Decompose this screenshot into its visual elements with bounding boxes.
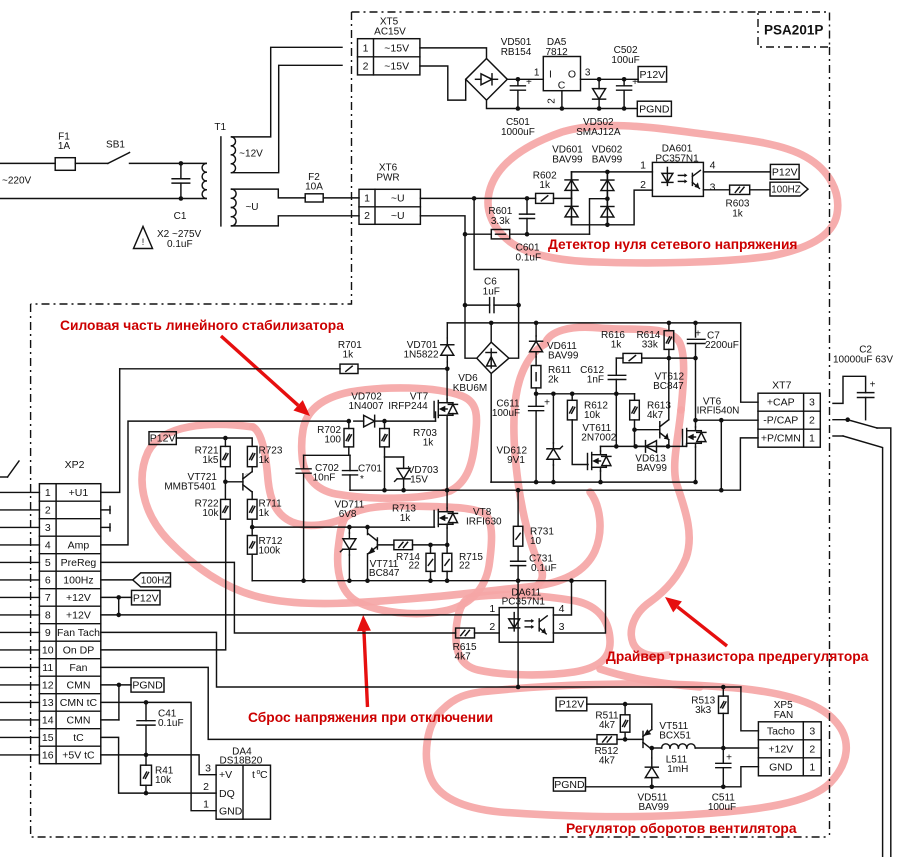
transistor VT611 2N7002 xyxy=(587,454,589,470)
wire PGND fan line xyxy=(586,786,741,788)
voltage regulator DA5 7812 xyxy=(543,57,580,91)
svg-text:+CAP: +CAP xyxy=(767,397,795,409)
wire XT5 pin1 to bridge xyxy=(420,48,487,59)
svg-text:2: 2 xyxy=(363,60,369,72)
svg-text:1k: 1k xyxy=(539,180,551,191)
wire R714 line to VT8 source xyxy=(413,544,448,546)
svg-text:4: 4 xyxy=(559,603,565,615)
svg-text:+: + xyxy=(632,77,638,88)
svg-text:I: I xyxy=(549,69,552,81)
svg-text:Детектор нуля сетевого напряже: Детектор нуля сетевого напряжения xyxy=(548,237,797,252)
net label P12V fan xyxy=(556,697,587,710)
wire XP2 pin16 +5VtC to DA4 +V xyxy=(101,755,216,775)
wire R721 to VT721 base xyxy=(224,467,226,482)
diode VD701 1N5822 xyxy=(446,338,448,345)
svg-text:DQ: DQ xyxy=(219,788,235,800)
wire 611 mid bus xyxy=(536,393,634,395)
wire VT7 drain xyxy=(446,369,448,399)
svg-text:BCX51: BCX51 xyxy=(659,731,691,742)
resistor R702 100 xyxy=(348,421,350,428)
svg-text:4k7: 4k7 xyxy=(455,652,472,663)
svg-text:22: 22 xyxy=(459,561,471,572)
svg-text:1: 1 xyxy=(809,433,815,445)
wire row1 branch down to C6 right xyxy=(474,198,518,305)
svg-text:+12V: +12V xyxy=(66,592,91,604)
svg-text:PC357N1: PC357N1 xyxy=(502,597,546,608)
resistor R712 100k xyxy=(251,527,253,535)
dual diode VD611 BAV99 xyxy=(535,323,537,336)
wire R711 to gate line xyxy=(251,519,253,527)
svg-text:MMBT5401: MMBT5401 xyxy=(164,482,216,493)
transformer T1 secondary U winding xyxy=(232,189,237,198)
wire VT6 gate approach xyxy=(686,444,688,446)
wire DA601 pin3 to R603 xyxy=(703,189,729,191)
svg-text:0.1uF: 0.1uF xyxy=(167,239,193,250)
svg-text:PC357N1: PC357N1 xyxy=(655,154,699,165)
switch SB1 xyxy=(108,153,130,164)
net label P12V detector xyxy=(770,164,799,179)
svg-text:~12V: ~12V xyxy=(239,149,263,160)
wire F2 to XT6 pin1 xyxy=(323,197,359,199)
wire preregulator gate line xyxy=(252,526,434,528)
wire R613 to VT612 base xyxy=(634,420,636,447)
svg-text:3: 3 xyxy=(809,725,815,737)
svg-text:AC15V: AC15V xyxy=(374,27,406,38)
resistor R714 22 vertical xyxy=(430,545,432,553)
highlight loop around VD711 discharge lobe xyxy=(338,506,492,614)
svg-text:1nF: 1nF xyxy=(587,375,604,386)
svg-text:3: 3 xyxy=(585,68,591,79)
red arrow to preregulator driver xyxy=(678,607,727,646)
svg-text:C: C xyxy=(558,80,566,92)
wire XP2 pin9 FanTach to XP5 Tacho xyxy=(101,632,741,687)
capacitor C502 100uF xyxy=(623,79,625,86)
wire 611 drive line xyxy=(601,445,687,447)
resistor R723 1k xyxy=(247,446,257,466)
net label P12V stabilizer xyxy=(149,432,176,445)
svg-text:C: C xyxy=(260,769,268,781)
wire local bottom bus xyxy=(252,580,605,582)
svg-text:tC: tC xyxy=(73,732,84,744)
svg-text:PGND: PGND xyxy=(132,680,163,692)
svg-text:~220V: ~220V xyxy=(2,176,32,187)
svg-text:+V: +V xyxy=(219,769,232,781)
svg-text:P12V: P12V xyxy=(133,592,159,604)
wire XP2 pin15 tC to DA4 DQ xyxy=(101,737,216,793)
svg-text:P12V: P12V xyxy=(559,699,585,711)
transistor VT511 BCX51 xyxy=(642,731,644,747)
svg-text:1k: 1k xyxy=(611,340,623,351)
svg-text:100: 100 xyxy=(324,435,341,446)
wire mains line bottom xyxy=(0,198,206,200)
bridge rectifier VD501 RB154 xyxy=(466,59,508,101)
svg-text:+: + xyxy=(544,397,550,408)
svg-text:33k: 33k xyxy=(642,340,659,351)
svg-text:~15V: ~15V xyxy=(384,42,409,54)
wire VT511 collector node xyxy=(651,749,653,758)
diode VD613 BAV99 xyxy=(638,445,646,447)
switch contact at C2 xyxy=(845,417,850,422)
transistor VT612 BC847 xyxy=(659,422,661,438)
resistor R711 1k xyxy=(247,499,257,519)
wire VT6 drain with C7 xyxy=(695,323,697,337)
svg-text:GND: GND xyxy=(219,806,243,818)
wire XP2 pin11 Fan to R512 xyxy=(101,667,597,739)
svg-text:-P/CAP: -P/CAP xyxy=(763,415,798,427)
svg-text:4: 4 xyxy=(710,160,716,172)
svg-text:1: 1 xyxy=(489,603,495,615)
wire bridge VD6 bottom down xyxy=(490,374,492,483)
svg-text:XP2: XP2 xyxy=(65,459,85,471)
svg-text:16: 16 xyxy=(42,749,54,761)
svg-text:t: t xyxy=(252,769,255,781)
wire R601 line xyxy=(465,233,491,235)
svg-text:*: * xyxy=(360,474,364,485)
svg-text:1: 1 xyxy=(45,487,51,499)
svg-text:10: 10 xyxy=(530,536,542,547)
resistor R616 1k xyxy=(623,353,642,362)
svg-text:Сброс напряжения при отключени: Сброс напряжения при отключении xyxy=(248,710,493,725)
wire preregulator output bus xyxy=(350,438,758,490)
wire VT8 source to R715 xyxy=(446,528,448,553)
capacitor C612 1nF and R616 branch xyxy=(615,358,617,375)
resistor R731 10 xyxy=(517,490,519,526)
svg-text:1k: 1k xyxy=(400,513,412,524)
capacitor C501 1000uF xyxy=(517,79,519,86)
svg-text:0.1uF: 0.1uF xyxy=(158,718,184,729)
svg-text:1mH: 1mH xyxy=(667,764,688,775)
wire XP2 pin1 +U1 riser to R701 line xyxy=(101,369,120,493)
wire mains line top xyxy=(0,162,55,164)
net label P12V top xyxy=(638,67,667,83)
resistor R714 22 horizontal xyxy=(394,540,413,550)
svg-text:+: + xyxy=(726,753,732,764)
svg-text:+: + xyxy=(526,77,532,88)
dual diode VD601 BAV99 xyxy=(571,172,573,225)
highlight stroke joining DA611 loop to fan loop xyxy=(600,669,700,687)
svg-text:100uF: 100uF xyxy=(492,408,520,419)
svg-text:2: 2 xyxy=(45,504,51,516)
resistor R512 4k7 xyxy=(597,735,617,744)
svg-text:4k7: 4k7 xyxy=(599,756,616,767)
wire R602 to VD601 xyxy=(554,197,572,199)
svg-text:+5V tC: +5V tC xyxy=(62,749,95,761)
svg-text:14: 14 xyxy=(42,714,54,726)
svg-text:+U1: +U1 xyxy=(69,487,89,499)
wire lower external stub xyxy=(833,435,843,437)
svg-text:100Hz: 100Hz xyxy=(63,574,93,586)
wire XP2 pin7 +12V to P12V xyxy=(101,596,132,598)
resistor R715 22 xyxy=(442,553,451,571)
svg-text:1k: 1k xyxy=(259,455,271,466)
resistor R611 2k xyxy=(535,357,537,366)
svg-text:9: 9 xyxy=(45,627,51,639)
wire XP2 pin8 +12V long line to DA611 pin1 xyxy=(101,614,499,616)
wire fan GND to XP5 xyxy=(741,767,759,787)
wire bridge VD6 top to rail xyxy=(490,323,492,342)
svg-text:10k: 10k xyxy=(155,775,172,786)
wire XP2 pin5 PreReg to R615 xyxy=(101,562,456,633)
svg-text:10000uF 63V: 10000uF 63V xyxy=(833,355,893,366)
net label PGND top xyxy=(637,101,671,116)
wire R703 bottom to bus xyxy=(384,447,386,490)
svg-text:+12V: +12V xyxy=(768,743,793,755)
highlight loop around VT7 preregulator lobe xyxy=(302,388,477,498)
svg-text:BC847: BC847 xyxy=(369,568,400,579)
svg-text:13: 13 xyxy=(42,697,54,709)
svg-text:4k7: 4k7 xyxy=(647,410,664,421)
net label PGND fan xyxy=(553,778,585,791)
wire rail to XT7 +CAP xyxy=(741,323,758,402)
wire XP2 pin3 stub xyxy=(101,526,110,528)
svg-text:PWR: PWR xyxy=(376,173,399,184)
wire bridge to DA5 input xyxy=(507,78,543,80)
resistor R603 1k xyxy=(730,185,750,194)
svg-text:+: + xyxy=(870,380,876,391)
highlight loop around 611 preregulator control block left side xyxy=(545,327,684,410)
optocoupler DA601 PC357N1 xyxy=(652,162,703,196)
resistor R614 33k xyxy=(668,323,670,331)
wire -P/CAP branch to output bus xyxy=(720,420,722,490)
wire VT611 drain to drive line xyxy=(600,446,602,451)
wire XP2 pin4 Amp riser to gate line xyxy=(101,421,349,545)
wire R701 line xyxy=(120,368,340,370)
wire DA601 pin4 to P12V xyxy=(703,171,770,173)
module border dashed outline xyxy=(352,11,759,13)
fuse F1 1A xyxy=(55,158,75,171)
svg-text:P12V: P12V xyxy=(772,166,798,178)
svg-text:BAV99: BAV99 xyxy=(637,463,668,474)
bridge rectifier VD6 KBU6M xyxy=(477,342,509,373)
svg-text:1: 1 xyxy=(203,799,209,811)
wire VT612 collector to R614 node xyxy=(668,358,670,420)
wire gate line to VT7 xyxy=(385,420,436,422)
wire C6 right down to bridge VD6 right corner xyxy=(509,305,519,358)
svg-text:7: 7 xyxy=(45,592,51,604)
wire XP2 pin2 stub xyxy=(101,509,110,511)
zener diode VD703 15V xyxy=(385,456,404,458)
svg-text:BAV99: BAV99 xyxy=(592,155,623,166)
svg-text:0.1uF: 0.1uF xyxy=(516,253,542,264)
wire XT6 pin2 down xyxy=(420,216,465,234)
svg-text:1N4007: 1N4007 xyxy=(348,401,383,412)
wire detector top rail to DA601 pin1 xyxy=(572,171,653,173)
diode VD511 BAV99 xyxy=(651,758,653,767)
wire R615 to DA611 pin2 xyxy=(475,632,500,634)
red arrow voltage reset xyxy=(364,631,368,707)
zener diode VD711 6V8 xyxy=(348,527,350,533)
highlight loop around linear stabilizer left part xyxy=(142,424,600,603)
svg-text:7812: 7812 xyxy=(545,47,568,58)
svg-text:15V: 15V xyxy=(410,475,428,486)
svg-text:6V8: 6V8 xyxy=(339,509,357,520)
svg-text:2: 2 xyxy=(809,743,815,755)
wire VT6 source to block bottom xyxy=(695,447,697,482)
wire XP2 pin13 CMNtC to DA4 GND xyxy=(101,702,216,810)
main positive rail xyxy=(447,322,740,324)
svg-text:O: O xyxy=(568,69,576,81)
highlight loop around zero-cross detector xyxy=(488,126,838,263)
svg-text:GND: GND xyxy=(769,761,793,773)
protection diode VD502 SMAJ12A xyxy=(598,79,600,88)
resistor R513 3k3 xyxy=(722,687,724,696)
svg-text:1A: 1A xyxy=(58,141,71,152)
svg-text:100k: 100k xyxy=(259,546,282,557)
svg-text:CMN: CMN xyxy=(66,714,90,726)
svg-text:10A: 10A xyxy=(305,182,323,193)
svg-text:15: 15 xyxy=(42,732,54,744)
svg-text:0.1uF: 0.1uF xyxy=(531,563,557,574)
wire C6 left down to bridge VD6 left corner xyxy=(465,305,477,358)
svg-text:1k: 1k xyxy=(259,508,271,519)
wire R712 to bottom bus xyxy=(251,554,253,581)
svg-text:P12V: P12V xyxy=(150,433,176,445)
wire R611 to mid bus xyxy=(535,388,537,394)
svg-text:100HZ: 100HZ xyxy=(771,185,800,196)
svg-text:2: 2 xyxy=(489,621,495,633)
resistor R701 1k xyxy=(340,364,358,373)
svg-text:!: ! xyxy=(142,237,145,247)
wire R612 to VT611 gate xyxy=(572,420,588,465)
resistor R601 3.3k xyxy=(491,230,509,239)
transformer T1 secondary 12V winding xyxy=(232,137,236,146)
svg-text:8: 8 xyxy=(45,609,51,621)
wire P12V to VT511 emitter xyxy=(587,704,652,727)
wire VD701 to R701 node xyxy=(446,362,448,369)
svg-text:9V1: 9V1 xyxy=(507,455,525,466)
net label P12V at XP2 xyxy=(132,590,161,605)
svg-text:10k: 10k xyxy=(202,508,219,519)
svg-text:3.3k: 3.3k xyxy=(491,216,511,227)
svg-text:2k: 2k xyxy=(548,375,560,386)
svg-text:4: 4 xyxy=(45,539,51,551)
resistor R722 10k xyxy=(224,482,226,500)
svg-text:+: + xyxy=(695,329,701,340)
resistor R612 10k xyxy=(571,394,573,401)
wire R616 to R614 node xyxy=(642,357,696,359)
svg-text:IRFP244: IRFP244 xyxy=(388,401,428,412)
svg-text:2: 2 xyxy=(640,179,646,191)
svg-text:KBU6M: KBU6M xyxy=(453,383,487,394)
wire P12V to R721 R723 tops xyxy=(176,438,252,446)
diode VD702 1N4007 xyxy=(354,420,364,422)
svg-text:Регулятор оборотов вентилятора: Регулятор оборотов вентилятора xyxy=(566,821,797,836)
wire +12V rows tie xyxy=(118,597,120,615)
warning triangle X2 xyxy=(134,227,153,249)
svg-text:10nF: 10nF xyxy=(313,473,336,484)
transistor VT7 IRFP244 xyxy=(433,402,435,418)
wire R512 to VT511 base xyxy=(617,738,643,740)
resistor R703 1k xyxy=(384,421,386,428)
capacitor C611 100uF xyxy=(535,394,537,407)
svg-text:RB154: RB154 xyxy=(501,47,532,58)
capacitor C601 0.1uF xyxy=(526,198,528,214)
svg-text:1k: 1k xyxy=(343,350,355,361)
wire VT8 drain xyxy=(446,490,448,508)
red arrow to linear stabilizer power part xyxy=(221,336,298,405)
capacitor C701 xyxy=(348,447,350,455)
highlight loop around fan regulator xyxy=(426,684,846,817)
svg-text:6: 6 xyxy=(45,574,51,586)
wire R731 branch down to tach line xyxy=(517,581,519,687)
svg-text:100uF: 100uF xyxy=(708,802,736,813)
inductor L511 1mH xyxy=(652,747,662,749)
wire tach riser to XP5 xyxy=(741,687,759,731)
net flag 100HZ xyxy=(770,182,808,196)
svg-text:BAV99: BAV99 xyxy=(548,351,579,362)
wire XT6 pin1 to R602 xyxy=(420,197,535,199)
svg-text:1: 1 xyxy=(809,761,815,773)
svg-text:+12V: +12V xyxy=(66,609,91,621)
wire SB1 to T1 xyxy=(130,162,207,164)
resistor R511 4k7 xyxy=(624,704,626,715)
wire XT5 pin2 to bridge xyxy=(420,66,466,100)
wire C2 switch to load xyxy=(877,428,891,857)
svg-text:C1: C1 xyxy=(174,211,187,222)
wire VT612 emitter to drive line xyxy=(668,440,670,447)
wire CMN tie rows 12-14 xyxy=(118,685,120,720)
capacitor C41 0.1uF xyxy=(145,702,147,720)
svg-text:1k: 1k xyxy=(423,438,435,449)
svg-text:4k7: 4k7 xyxy=(599,720,616,731)
net label PGND at XP2 xyxy=(131,678,164,692)
svg-text:1uF: 1uF xyxy=(483,287,500,298)
svg-text:Fan: Fan xyxy=(69,662,87,674)
wire R603 to 100HZ flag xyxy=(750,189,770,191)
resistor R602 1k xyxy=(536,193,554,203)
wire VT7 source to bus xyxy=(446,419,448,490)
wire detector bottom rail to DA601 pin2 xyxy=(572,190,653,225)
svg-text:100HZ: 100HZ xyxy=(141,575,170,586)
wire U secondary top to F2 xyxy=(232,189,306,198)
svg-text:~U: ~U xyxy=(391,210,405,222)
wire rail corner down to VD701 xyxy=(446,323,448,338)
wire DA5 output to P12V xyxy=(581,78,639,80)
svg-text:SMAJ12A: SMAJ12A xyxy=(576,127,621,138)
svg-text:2: 2 xyxy=(547,98,558,104)
svg-text:12: 12 xyxy=(42,679,54,691)
switch blade at XP2 input xyxy=(0,476,8,478)
capacitor C702 10nF xyxy=(304,454,350,456)
wire VT711 base to R714 xyxy=(377,544,394,546)
svg-text:1: 1 xyxy=(363,42,369,54)
module name box PSA201P xyxy=(758,12,830,47)
wire U secondary bottom to XT6 pin2 xyxy=(232,216,360,226)
zener diode VD612 9V1 xyxy=(552,394,554,443)
svg-text:100uF: 100uF xyxy=(611,55,639,66)
svg-text:BAV99: BAV99 xyxy=(639,802,670,813)
svg-text:Силовая часть линейного стабил: Силовая часть линейного стабилизатора xyxy=(60,318,344,333)
fuse F2 10A xyxy=(305,194,323,202)
svg-text:10: 10 xyxy=(42,644,54,656)
svg-text:1k5: 1k5 xyxy=(202,455,219,466)
wire VT6 node to XT7 -P/CAP xyxy=(696,419,759,421)
svg-text:3: 3 xyxy=(205,763,211,775)
svg-text:11: 11 xyxy=(42,662,53,674)
capacitor C511 100uF xyxy=(722,748,724,763)
svg-text:~15V: ~15V xyxy=(384,60,409,72)
transistor VT721 MMBT5401 xyxy=(225,481,243,483)
transformer T1 core xyxy=(220,137,222,226)
wire XP2 pin10 OnDP riser to R722 xyxy=(101,519,226,650)
svg-text:2: 2 xyxy=(203,781,209,793)
svg-text:Tacho: Tacho xyxy=(767,725,795,737)
svg-text:2N7002: 2N7002 xyxy=(581,433,616,444)
wire DA611 pin3 riser xyxy=(553,581,605,633)
transformer T1 primary winding xyxy=(202,163,206,172)
svg-text:3: 3 xyxy=(45,522,51,534)
wire XP2 pin12 CMN to PGND xyxy=(101,684,131,686)
